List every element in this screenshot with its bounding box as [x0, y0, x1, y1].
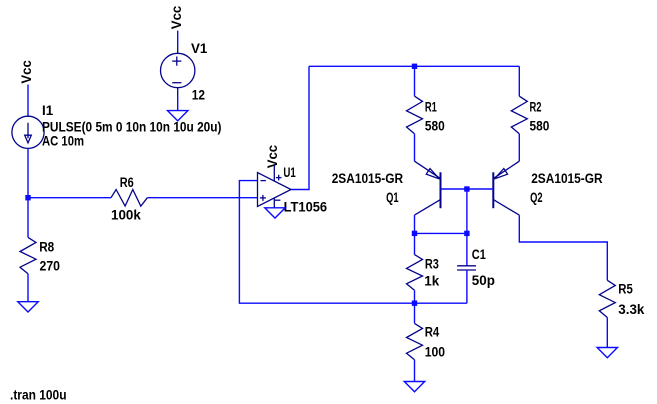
wire R2 to Q2 emitter [518, 134, 520, 161]
value 3.3k [618, 302, 645, 317]
label R3 [425, 257, 439, 272]
value 100 [425, 345, 445, 360]
junction bottom node [412, 301, 417, 306]
wire rail to R1 [414, 66, 416, 96]
svg-text:2SA1015-GR: 2SA1015-GR [531, 171, 603, 186]
svg-text:100: 100 [425, 345, 445, 360]
wire node to R8 [27, 198, 29, 238]
svg-text:R5: R5 [618, 281, 633, 296]
label V1 [191, 41, 208, 56]
value 580 (R1) [425, 119, 445, 134]
wire op-amp output to top rail [291, 66, 309, 189]
label U1 [283, 165, 296, 180]
svg-text:Vcc: Vcc [265, 144, 280, 168]
junction base node [464, 186, 469, 191]
wire base node down to C1 node [466, 189, 468, 233]
wire node to R3 [414, 233, 416, 254]
wire R6 to op-amp noninverting input [147, 197, 257, 199]
wire I1 bottom to input node [27, 148, 29, 197]
value PULSE(0 5m 0 10n 10n 10u 20u) [42, 119, 222, 134]
svg-text:I1: I1 [42, 103, 54, 118]
ground below R5 [597, 348, 617, 358]
svg-text:PULSE(0 5m 0 10n 10n 10u 20u): PULSE(0 5m 0 10n 10n 10u 20u) [42, 119, 222, 134]
ground below R8 [18, 302, 38, 312]
ground below V1 [168, 111, 188, 121]
wire Vcc flag to V1 [177, 31, 179, 45]
svg-text:R1: R1 [425, 99, 437, 114]
label 2SA1015-GR (Q1) [332, 171, 404, 186]
svg-text:50p: 50p [472, 273, 495, 288]
value 580 (R2) [530, 119, 550, 134]
svg-text:100k: 100k [111, 207, 141, 222]
label I1 [42, 103, 54, 118]
svg-text:R4: R4 [425, 325, 440, 340]
svg-text:V1: V1 [191, 41, 208, 56]
svg-text:580: 580 [530, 119, 550, 134]
svg-text:Vcc: Vcc [169, 5, 184, 29]
power flag Vcc net label (op-amp) [265, 144, 280, 168]
svg-text:Q2: Q2 [530, 190, 543, 205]
svg-text:12: 12 [192, 87, 205, 102]
svg-text:2SA1015-GR: 2SA1015-GR [332, 171, 404, 186]
wire V1 to ground [177, 97, 179, 111]
wire node to R6 [28, 197, 111, 199]
svg-text:270: 270 [40, 259, 61, 274]
svg-text:LT1056: LT1056 [284, 200, 328, 215]
svg-text:R8: R8 [39, 240, 54, 255]
junction node input [25, 195, 30, 200]
label R5 [618, 281, 633, 296]
label R2 [530, 99, 542, 114]
wire Q2 collector to R5 [519, 215, 607, 280]
svg-text:Q1: Q1 [386, 190, 399, 205]
wire Vcc flag to I1 top [27, 85, 29, 117]
value LT1056 [284, 200, 328, 215]
label R1 [425, 99, 437, 114]
svg-text:.tran 100u: .tran 100u [10, 387, 67, 402]
transistor Q2 (PNP) [493, 161, 519, 215]
label R4 [425, 325, 440, 340]
label Q1 [386, 190, 399, 205]
resistor R8 [20, 237, 36, 273]
power flag Vcc net label (V1) [169, 5, 184, 29]
label R8 [39, 240, 54, 255]
current source I1 [12, 116, 44, 148]
svg-text:3.3k: 3.3k [618, 302, 645, 317]
label 2SA1015-GR (Q2) [531, 171, 603, 186]
svg-text:AC 10m: AC 10m [42, 134, 84, 149]
wire R3 to bottom node [414, 290, 416, 303]
spice directive .tran 100u [10, 387, 67, 402]
resistor R2 [511, 96, 527, 134]
svg-text:1k: 1k [424, 274, 439, 289]
resistor R1 [407, 96, 423, 134]
resistor R6 [111, 190, 147, 207]
value 100k [111, 207, 141, 222]
svg-text:U1: U1 [283, 165, 296, 180]
wire rail to R2 [518, 66, 520, 96]
wire R5 to ground [606, 318, 608, 348]
wire C1 bottom to node [415, 302, 467, 304]
wire node to R4 [414, 303, 416, 323]
svg-text:R6: R6 [120, 175, 134, 190]
voltage source V1 [161, 45, 195, 97]
value 50p [472, 273, 495, 288]
transistor Q1 (PNP) [415, 161, 441, 215]
label Q2 [530, 190, 543, 205]
label C1 [472, 247, 486, 262]
junction top rail at R1 [412, 64, 417, 69]
op-amp U1 [258, 165, 292, 208]
svg-text:580: 580 [425, 119, 445, 134]
wire collector node to C1 node [415, 232, 467, 234]
wire R1 to Q1 emitter [414, 134, 416, 161]
value 1k [424, 274, 439, 289]
label R6 [120, 175, 134, 190]
svg-text:R3: R3 [425, 257, 439, 272]
value 12 [192, 87, 205, 102]
svg-text:R2: R2 [530, 99, 542, 114]
ground below R4 [404, 382, 424, 392]
wire Q1 collector down [414, 215, 416, 233]
junction collector node [412, 231, 417, 236]
ground below op-amp [265, 208, 285, 218]
resistor R3 [407, 255, 423, 291]
capacitor C1 [457, 233, 476, 303]
wire R4 to ground [414, 360, 416, 382]
resistor R5 [599, 280, 615, 317]
wire R8 to ground [27, 274, 29, 302]
value AC 10m [42, 134, 84, 149]
resistor R4 [407, 323, 423, 359]
wire top rail [309, 65, 519, 67]
value 270 [40, 259, 61, 274]
wire Q2 base to center node [467, 188, 493, 190]
svg-text:C1: C1 [472, 247, 486, 262]
junction C1 top node [464, 231, 469, 236]
wire Q1 base to center node [441, 188, 467, 190]
power flag Vcc net label (left rail) [19, 60, 34, 84]
wire feedback from inverting input to R3/R4 node [239, 181, 414, 304]
svg-text:Vcc: Vcc [19, 60, 34, 84]
